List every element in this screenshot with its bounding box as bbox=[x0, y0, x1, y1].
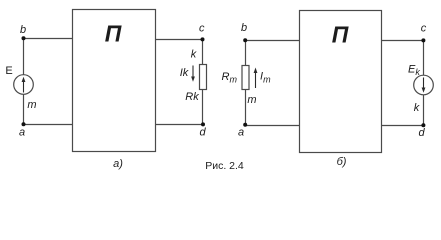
svg-text:П: П bbox=[332, 22, 349, 48]
svg-text:Ik: Ik bbox=[180, 67, 189, 79]
svg-text:m: m bbox=[27, 99, 36, 111]
svg-text:b: b bbox=[241, 22, 247, 34]
svg-text:Рис. 2.4: Рис. 2.4 bbox=[205, 160, 244, 172]
svg-text:Rk: Rk bbox=[185, 91, 199, 103]
svg-text:d: d bbox=[199, 127, 206, 139]
svg-text:П: П bbox=[105, 21, 122, 47]
svg-text:b: b bbox=[20, 24, 26, 36]
svg-text:k: k bbox=[191, 49, 197, 61]
svg-text:c: c bbox=[421, 23, 427, 35]
svg-text:d: d bbox=[418, 127, 425, 139]
svg-text:б): б) bbox=[337, 156, 347, 168]
svg-text:E: E bbox=[5, 65, 12, 77]
svg-text:а): а) bbox=[113, 158, 123, 170]
svg-text:a: a bbox=[238, 127, 244, 139]
svg-text:a: a bbox=[19, 127, 25, 139]
svg-text:k: k bbox=[414, 102, 420, 114]
svg-text:m: m bbox=[247, 94, 256, 106]
svg-text:c: c bbox=[199, 23, 205, 35]
